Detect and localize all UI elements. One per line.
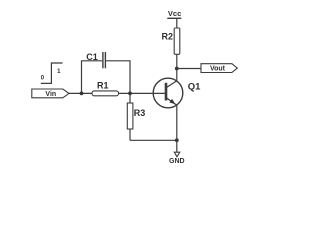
resistor R2 [162, 18, 180, 69]
svg-text:Vin: Vin [45, 91, 56, 98]
junction node B (R1 / C1 / R3 / base) [128, 92, 132, 96]
wire node D to Vout [177, 68, 201, 70]
svg-text:0: 0 [41, 76, 45, 82]
ground [169, 140, 185, 165]
wire collector up to node D [176, 69, 178, 81]
wire emitter down to node C [176, 105, 178, 140]
svg-text:1: 1 [57, 69, 61, 75]
wire Vin to R1 [69, 92, 92, 94]
transistor Q1 (NPN) [153, 78, 201, 108]
step stimulus symbol (0/1 input waveform) [41, 63, 63, 83]
wire R1 to Q1 base [119, 92, 167, 94]
junction node A (Vin / C1 / R1) [80, 92, 84, 96]
svg-text:Vout: Vout [210, 66, 226, 73]
power Vcc [167, 9, 181, 18]
net tag Vin [32, 89, 69, 98]
svg-text:R1: R1 [97, 81, 109, 91]
net tag Vout [201, 64, 237, 73]
svg-text:GND: GND [169, 158, 185, 165]
junction node C (emitter / R3 / ground) [175, 138, 179, 142]
svg-text:Vcc: Vcc [168, 9, 181, 18]
capacitor C1 [82, 52, 131, 93]
resistor R3 [127, 93, 145, 140]
junction node D (collector / R2 / Vout) [175, 67, 179, 71]
svg-text:R2: R2 [162, 32, 174, 42]
resistor R1 [92, 81, 119, 96]
wire R3 to emitter node [130, 139, 177, 141]
svg-text:R3: R3 [134, 108, 146, 118]
svg-text:Q1: Q1 [188, 81, 201, 92]
svg-text:C1: C1 [86, 52, 98, 62]
